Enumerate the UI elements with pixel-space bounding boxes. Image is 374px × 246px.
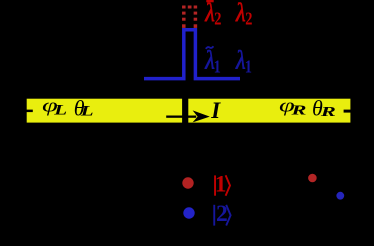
- tilde over lambda_2 (clipped at top): [206, 0, 213, 2]
- svg-text:R: R: [320, 104, 336, 120]
- svg-text:1: 1: [215, 172, 227, 198]
- ket |1> angle bracket: [226, 175, 230, 195]
- red dashed barrier extension: left column dashes: [182, 6, 186, 28]
- yellow junction lead bar: [27, 99, 351, 123]
- red dashed barrier extension: right column dashes: [194, 6, 198, 28]
- svg-text:1: 1: [245, 56, 252, 77]
- legend blue dot state 2: [183, 207, 194, 218]
- black junction barrier line across bar: [182, 96, 188, 127]
- left end tick (minus): [22, 110, 33, 113]
- svg-text:2: 2: [216, 201, 228, 227]
- blue potential profile with barrier: [144, 30, 240, 79]
- red dashed barrier extension: top middle dash: [188, 6, 192, 9]
- svg-text:R: R: [290, 103, 306, 119]
- right blue dot (qubit state 2 position): [336, 192, 344, 200]
- current arrow shaft: [166, 116, 196, 118]
- ket |1> bar: [214, 175, 216, 195]
- current arrow head: [193, 110, 210, 122]
- right end tick (minus): [344, 110, 353, 113]
- svg-text:2: 2: [245, 8, 252, 29]
- svg-text:λ: λ: [204, 0, 214, 27]
- legend red dot state 1: [182, 177, 193, 188]
- svg-text:2: 2: [214, 8, 221, 29]
- svg-text:λ: λ: [235, 0, 245, 27]
- svg-text:λ: λ: [235, 47, 245, 75]
- svg-text:1: 1: [214, 56, 221, 77]
- tilde over lambda_1: [206, 46, 214, 49]
- svg-text:I: I: [210, 98, 221, 123]
- right red dot (qubit state 1 position): [308, 174, 317, 183]
- ket |2> angle bracket: [226, 205, 230, 226]
- ket |2> bar: [213, 205, 215, 226]
- svg-text:L: L: [80, 103, 94, 119]
- svg-text:L: L: [53, 102, 67, 118]
